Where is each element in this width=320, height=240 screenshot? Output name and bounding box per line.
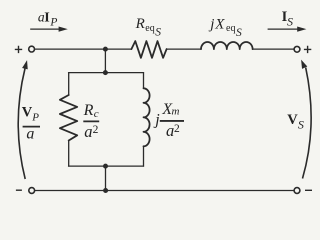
svg-text:a: a [84,122,92,141]
resistor R_c/a2 [60,95,77,141]
inductor jX_eqS [201,42,253,49]
terminal bottom-left [29,188,35,194]
label R_eqS [135,16,162,39]
wire right branch top lead [143,73,145,89]
terminal top-right [294,46,300,52]
voltage arrow V_P/a [18,59,30,179]
wire bottom rail [35,190,294,192]
voltage arrow V_S [298,58,311,178]
wire top rail middle [167,48,201,50]
label R_c/a2 [83,102,100,141]
wire shunt drop bottom [105,166,107,190]
svg-text:V: V [287,112,298,128]
svg-text:2: 2 [174,123,180,135]
wire top rail left [35,48,132,50]
inductor jX_m/a2 [144,88,150,146]
svg-text:a: a [166,121,174,140]
wire box top [69,72,144,74]
wire box bottom [69,165,144,167]
svg-text:2: 2 [93,124,99,136]
wire shunt drop top [104,49,106,73]
minus bottom-left [16,189,22,191]
junction dot box bottom [103,164,108,169]
svg-text:X: X [214,16,225,32]
label jX_m/a2 [153,101,184,140]
svg-text:m: m [172,106,180,118]
svg-text:eq: eq [145,23,154,34]
wire right branch bottom lead [143,146,145,166]
svg-text:I: I [44,10,49,25]
svg-text:eq: eq [226,23,235,34]
terminal top-left [29,46,35,52]
svg-text:R: R [83,102,94,119]
junction dot top [103,47,108,52]
label I_S [282,9,293,28]
current arrow aI_P [30,27,68,32]
label V_P/a [22,105,40,143]
svg-text:P: P [31,112,39,124]
svg-text:R: R [135,16,145,32]
label jX_eqS [208,16,242,39]
plus top-right [304,46,311,53]
svg-text:c: c [94,108,99,120]
current arrow I_S [268,27,307,32]
svg-text:j: j [153,112,160,129]
svg-text:P: P [49,16,57,28]
wire left branch top lead [68,73,70,95]
junction dot box top [103,70,108,75]
resistor R_eqS [131,41,166,58]
svg-text:S: S [298,118,304,132]
terminal bottom-right [294,188,300,194]
svg-text:a: a [26,126,34,143]
svg-text:V: V [22,105,33,121]
wire left branch bottom lead [68,141,70,167]
svg-text:S: S [236,27,242,39]
label V_S [287,112,304,132]
junction dot bottom rail [103,188,108,193]
label aI_P [38,9,58,28]
svg-text:S: S [155,27,161,39]
wire top rail right [253,48,294,50]
plus top-left [15,46,22,53]
minus bottom-right [305,189,312,191]
svg-text:S: S [287,14,293,28]
